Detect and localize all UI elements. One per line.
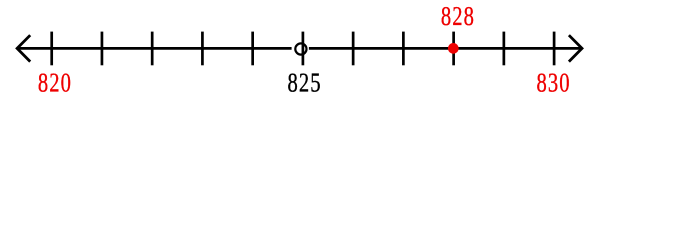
svg-text:2: 2 — [299, 66, 309, 97]
svg-text:3: 3 — [548, 66, 558, 97]
svg-text:8: 8 — [464, 0, 474, 31]
svg-text:8: 8 — [38, 66, 48, 97]
svg-text:8: 8 — [288, 66, 298, 97]
svg-text:2: 2 — [49, 66, 59, 97]
svg-text:5: 5 — [310, 66, 320, 97]
svg-text:2: 2 — [452, 0, 462, 31]
svg-text:8: 8 — [537, 66, 547, 97]
svg-text:0: 0 — [559, 66, 569, 97]
svg-text:8: 8 — [441, 0, 451, 31]
svg-text:0: 0 — [61, 66, 71, 97]
